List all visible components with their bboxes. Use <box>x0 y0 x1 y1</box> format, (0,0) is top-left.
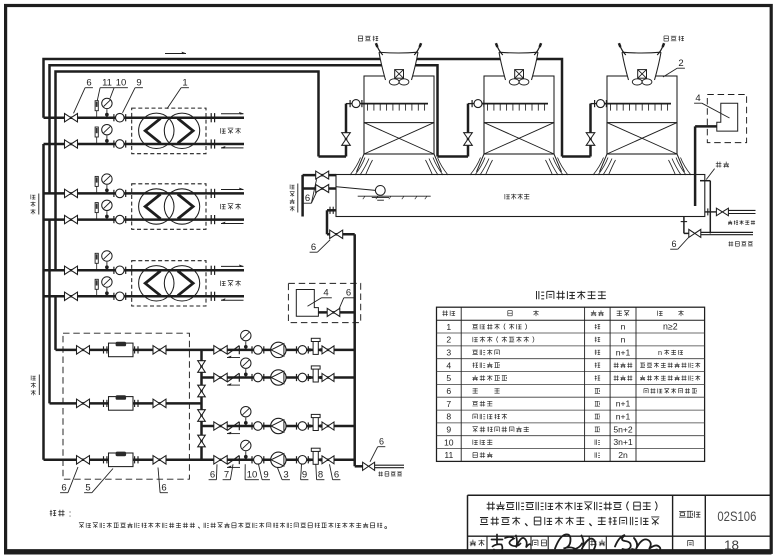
svg-text:9: 9 <box>263 470 268 481</box>
svg-text:2: 2 <box>446 335 451 345</box>
svg-text:n+1: n+1 <box>616 412 631 422</box>
svg-text:9: 9 <box>136 78 141 89</box>
svg-text:2n: 2n <box>618 450 628 460</box>
svg-text:5n+2: 5n+2 <box>613 424 633 434</box>
svg-text:3: 3 <box>283 470 288 481</box>
svg-text:n+1: n+1 <box>616 399 631 409</box>
svg-text:6: 6 <box>334 470 339 481</box>
svg-text:8: 8 <box>446 412 451 422</box>
svg-text:n: n <box>658 348 662 357</box>
svg-text:n: n <box>621 335 626 345</box>
svg-text::: : <box>69 508 72 518</box>
svg-text:9: 9 <box>446 425 451 435</box>
svg-text:4: 4 <box>323 288 328 299</box>
svg-text:6: 6 <box>305 193 310 204</box>
svg-text:18: 18 <box>724 538 739 553</box>
svg-text:8: 8 <box>318 470 323 481</box>
svg-text:3n+1: 3n+1 <box>613 437 633 447</box>
svg-text:6: 6 <box>86 78 91 89</box>
svg-text:6: 6 <box>210 470 215 481</box>
svg-text:6: 6 <box>311 242 316 253</box>
svg-text:10: 10 <box>247 470 258 481</box>
svg-text:6: 6 <box>379 437 384 447</box>
svg-text:5: 5 <box>85 483 90 494</box>
svg-text:9: 9 <box>302 470 307 481</box>
svg-text:2: 2 <box>678 58 683 69</box>
svg-text:n+1: n+1 <box>616 347 631 357</box>
svg-text:5: 5 <box>446 373 451 383</box>
svg-text:6: 6 <box>346 288 351 299</box>
svg-text:11: 11 <box>102 78 112 89</box>
svg-text:n≥2: n≥2 <box>663 322 678 332</box>
svg-text:6: 6 <box>446 386 451 396</box>
svg-text:7: 7 <box>224 470 229 481</box>
svg-text:7: 7 <box>446 399 451 409</box>
svg-text:n: n <box>621 322 626 332</box>
svg-text:10: 10 <box>116 78 127 89</box>
svg-text:6: 6 <box>161 483 166 494</box>
svg-text:10: 10 <box>444 437 454 447</box>
svg-text:4: 4 <box>695 93 700 104</box>
svg-text:4: 4 <box>446 360 451 370</box>
svg-text:11: 11 <box>444 450 453 460</box>
svg-text:1: 1 <box>182 78 187 89</box>
svg-text:3: 3 <box>446 348 451 358</box>
svg-text:1: 1 <box>446 322 451 332</box>
svg-text:02S106: 02S106 <box>717 508 756 524</box>
svg-text:6: 6 <box>61 483 66 494</box>
svg-text:6: 6 <box>671 239 676 249</box>
